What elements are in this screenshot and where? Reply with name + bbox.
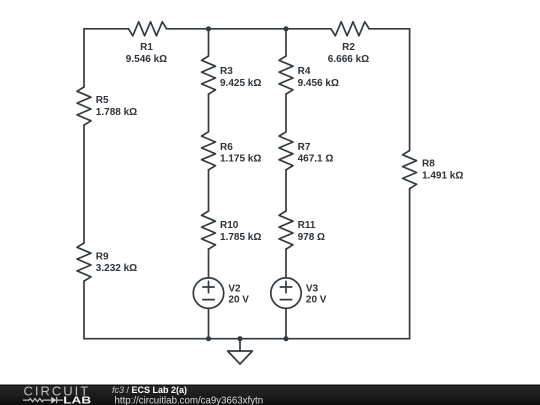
wire left vertical middle [83,125,85,243]
wire branch2 between R3 and R6 [208,94,210,132]
wire branch3 between R11 and V3 [285,249,287,278]
wire right vertical upper [409,29,411,151]
wire top-right segment [369,28,410,30]
svg-text:R10: R10 [220,220,239,231]
svg-text:9.456 kΩ: 9.456 kΩ [298,78,339,89]
svg-text:20 V: 20 V [306,294,327,305]
wire bottom [84,338,410,340]
svg-text:R11: R11 [298,220,316,231]
resistor R8 [403,151,417,189]
svg-text:9.546 kΩ: 9.546 kΩ [126,54,167,65]
node junction top branch2 [206,26,211,31]
label R8 [422,159,463,182]
node junction bottom ground [237,336,242,341]
label R1 [126,42,167,65]
label R6 [220,142,261,165]
wire branch2 between R10 and V2 [208,249,210,278]
label V3 [306,283,327,305]
label R2 [328,42,369,65]
svg-text:R1: R1 [140,42,153,53]
wire branch2 below V2 [208,308,210,338]
node junction top branch3 [283,26,288,31]
svg-text:R4: R4 [298,66,311,77]
voltage source V3 [271,278,301,308]
wire left vertical upper [83,29,85,87]
svg-text:R9: R9 [96,251,109,262]
footer bar [0,384,540,405]
svg-text:R8: R8 [422,159,435,170]
svg-text:9.425 kΩ: 9.425 kΩ [220,78,261,89]
label R11 [298,220,325,243]
svg-text:LAB: LAB [63,396,91,405]
svg-text:V2: V2 [228,283,241,294]
resistor R7 [279,132,293,170]
wire top-middle segment [167,28,332,30]
wire branch2 top [208,29,210,56]
svg-text:fc3 / ECS Lab 2(a): fc3 / ECS Lab 2(a) [112,385,187,395]
resistor R2 [331,22,369,36]
svg-text:6.666 kΩ: 6.666 kΩ [328,54,369,65]
wire top-left segment [84,28,129,30]
svg-text:1.491 kΩ: 1.491 kΩ [422,170,463,181]
wire left vertical lower [83,281,85,339]
svg-text:http://circuitlab.com/ca9y3663: http://circuitlab.com/ca9y3663xfytn [115,395,264,405]
resistor R3 [202,56,216,94]
svg-text:1.788 kΩ: 1.788 kΩ [96,107,137,118]
svg-text:1.785 kΩ: 1.785 kΩ [220,232,261,243]
resistor R5 [77,87,91,125]
label R10 [220,220,261,243]
svg-text:3.232 kΩ: 3.232 kΩ [96,263,137,274]
svg-text:20 V: 20 V [228,294,249,305]
svg-text:467.1 Ω: 467.1 Ω [298,154,334,165]
wire branch2 between R6 and R10 [208,170,210,211]
resistor R1 [129,22,167,36]
voltage source V2 [193,278,223,308]
wire branch3 between R7 and R11 [285,170,287,211]
wire right vertical lower [409,189,411,339]
ground [228,339,253,364]
label R4 [298,66,339,89]
label R7 [298,142,334,165]
wire branch3 top [285,29,287,56]
svg-text:R7: R7 [298,142,311,153]
svg-text:978 Ω: 978 Ω [298,232,325,243]
wire branch3 between R4 and R7 [285,94,287,132]
resistor R9 [77,243,91,281]
resistor R11 [279,211,293,249]
label V2 [228,283,249,305]
label R5 [96,95,137,118]
svg-text:R5: R5 [96,95,109,106]
node junction bottom branch2 [206,336,211,341]
svg-text:V3: V3 [306,283,319,294]
resistor R4 [279,56,293,94]
svg-text:R2: R2 [342,42,355,53]
resistor R6 [202,132,216,170]
logo resistor squiggle and diode [23,397,63,404]
wire branch3 below V3 [285,308,287,338]
resistor R10 [202,211,216,249]
label R9 [96,251,137,274]
node junction bottom branch3 [283,336,288,341]
svg-text:1.175 kΩ: 1.175 kΩ [220,154,261,165]
label R3 [220,66,261,89]
svg-text:R3: R3 [220,66,233,77]
svg-text:R6: R6 [220,142,233,153]
